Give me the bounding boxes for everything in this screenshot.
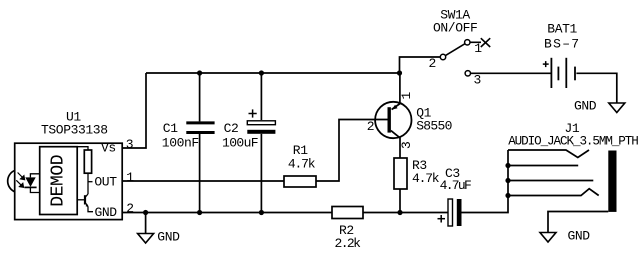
wire R1 to Q1 base xyxy=(316,120,388,182)
ground symbol left xyxy=(138,234,154,244)
wire jack tip contact xyxy=(508,150,589,158)
node junction top rail Q1 emitter xyxy=(397,70,402,75)
U1 internal output transistor xyxy=(77,194,93,212)
svg-text:2: 2 xyxy=(126,201,133,216)
node junction ground rail GND stub xyxy=(143,210,148,215)
wire C2 top leg xyxy=(260,73,262,120)
svg-text:OUT: OUT xyxy=(94,175,117,190)
U1 internal DEMOD block xyxy=(40,147,77,215)
svg-text:3: 3 xyxy=(126,137,133,152)
svg-text:GND: GND xyxy=(95,205,118,220)
capacitor C2 polarized plates xyxy=(247,121,275,134)
audio jack J1 left bus xyxy=(508,150,599,196)
svg-text:C1: C1 xyxy=(163,121,178,136)
svg-text:GND: GND xyxy=(574,99,597,114)
svg-text:4.7uF: 4.7uF xyxy=(440,178,471,193)
wire jack contact 4 xyxy=(508,189,599,196)
svg-text:4.7k: 4.7k xyxy=(412,171,440,186)
resistor R1 xyxy=(284,176,316,187)
resistor R2 xyxy=(332,207,363,219)
wire C1 top leg xyxy=(199,73,201,121)
wire C3 to audio jack xyxy=(462,150,509,213)
svg-text:DEMOD: DEMOD xyxy=(49,155,69,207)
svg-text:S8550: S8550 xyxy=(416,119,452,134)
node jack junction 1 xyxy=(505,163,510,168)
wire jack contact 2 xyxy=(508,165,578,167)
svg-text:ON/OFF: ON/OFF xyxy=(433,21,477,36)
wire battery to ground riser xyxy=(576,73,616,103)
switch SW1A pin 1 circle xyxy=(465,40,470,45)
svg-text:TSOP33138: TSOP33138 xyxy=(41,122,108,137)
switch SW1A pin 1 stub and X mark xyxy=(470,38,490,47)
wire riser from top rail to switch pin 2 xyxy=(400,57,441,73)
node jack junction 3 xyxy=(505,193,510,198)
ground symbol battery xyxy=(609,103,625,113)
wire switch pin 3 to battery xyxy=(471,72,551,74)
wire jack sleeve to GND xyxy=(548,212,608,233)
jack sleeve bar xyxy=(608,151,616,212)
wire C1 bottom leg xyxy=(199,134,201,213)
node junction ground rail C1 xyxy=(197,210,202,215)
svg-text:C2: C2 xyxy=(224,121,239,136)
C2 plus sign xyxy=(249,109,257,117)
switch SW1A lever xyxy=(445,44,465,56)
svg-text:3: 3 xyxy=(399,142,414,149)
C3 plus sign xyxy=(438,215,446,223)
wire R2 to C3 xyxy=(363,212,448,214)
capacitor C1 plates xyxy=(186,123,214,133)
svg-text:BAT1: BAT1 xyxy=(547,21,577,36)
wire bottom ground rail from U1 pin 2 to R2 xyxy=(122,212,332,214)
svg-text:GND: GND xyxy=(157,229,180,244)
U1 lens arc xyxy=(8,170,15,191)
wire Q1 emitter pin xyxy=(399,73,401,104)
node junction top rail C2 xyxy=(259,70,264,75)
BAT1 plus sign xyxy=(543,61,549,67)
wire R3 to ground rail node xyxy=(399,189,401,213)
svg-text:1: 1 xyxy=(399,92,414,100)
svg-text:1: 1 xyxy=(474,41,482,56)
svg-text:BS–7: BS–7 xyxy=(544,37,580,52)
node jack junction 2 xyxy=(505,178,510,183)
svg-text:100uF: 100uF xyxy=(222,136,258,151)
svg-text:Vs: Vs xyxy=(101,141,116,156)
IR receiver U1 body xyxy=(15,143,123,219)
node junction ground rail C2 xyxy=(259,210,264,215)
battery BAT1 xyxy=(551,58,575,88)
ground symbol jack xyxy=(540,233,556,243)
resistor R3 xyxy=(394,158,407,189)
svg-text:1: 1 xyxy=(126,170,134,185)
wire C2 bottom leg xyxy=(260,134,262,213)
svg-text:100nF: 100nF xyxy=(162,136,199,151)
wire Q1 collector to R3 xyxy=(399,138,401,159)
svg-text:AUDIO_JACK_3.5MM_PTH: AUDIO_JACK_3.5MM_PTH xyxy=(508,135,638,149)
svg-text:2: 2 xyxy=(367,119,374,134)
wire jack contact 3 xyxy=(508,180,593,182)
node junction top rail C1 xyxy=(197,70,202,75)
IR light arrows into photodiode xyxy=(16,173,24,188)
switch SW1A pin 3 circle xyxy=(465,71,470,76)
wire riser from top rail down to U1 pin 3 xyxy=(122,73,146,148)
svg-text:2: 2 xyxy=(429,56,436,71)
U1 internal pull-up resistor xyxy=(77,147,92,194)
switch SW1A pin 2 circle xyxy=(440,54,445,59)
wire left GND stub xyxy=(145,213,147,234)
wire top rail from U1 Vs riser to Q1 emitter node xyxy=(146,72,400,74)
capacitor C3 polarized plates xyxy=(448,199,462,226)
svg-text:3: 3 xyxy=(474,73,481,88)
photodiode D inside U1 xyxy=(24,174,39,193)
wire U1 OUT pin 1 to R1 xyxy=(122,180,284,182)
svg-text:2.2k: 2.2k xyxy=(335,236,362,251)
svg-text:GND: GND xyxy=(568,228,591,243)
svg-text:4.7k: 4.7k xyxy=(288,157,316,172)
node junction R3 R2 C3 xyxy=(397,210,402,215)
transistor Q1 xyxy=(375,102,411,138)
